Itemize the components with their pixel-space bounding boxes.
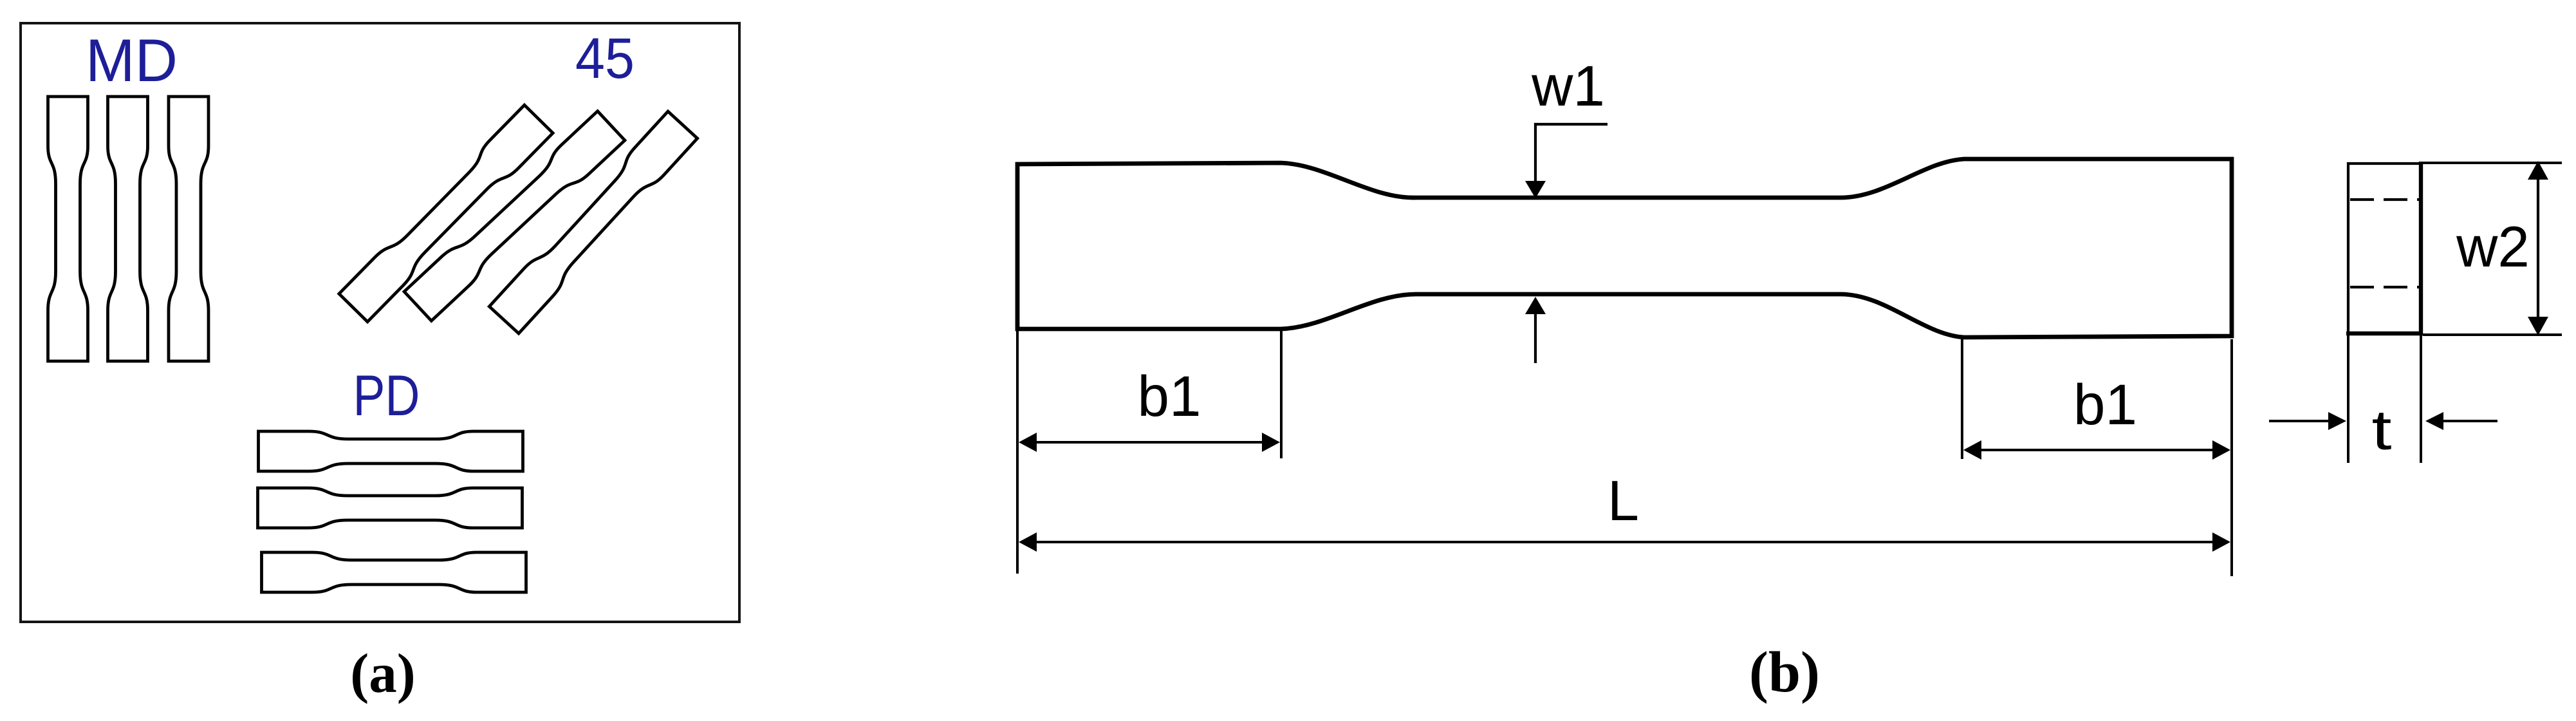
dashed line upper xyxy=(2350,198,2420,201)
svg-text:45: 45 xyxy=(575,26,635,90)
svg-text:t: t xyxy=(2372,399,2392,462)
dimension w1 leader with down arrow xyxy=(1535,124,1608,182)
dimension b1 right arrow line xyxy=(1974,449,2220,451)
svg-text:w1: w1 xyxy=(1531,53,1605,118)
dimension w2 vertical arrow line xyxy=(2537,177,2539,319)
t left arrow xyxy=(2269,420,2331,422)
specimen outline (b) xyxy=(1017,159,2232,337)
specimen MD1 xyxy=(48,97,88,361)
t extension line left xyxy=(2347,335,2349,463)
panel (a) box xyxy=(21,23,739,622)
dimension L arrow line xyxy=(1030,541,2220,543)
specimen 45-3 xyxy=(489,111,697,333)
dimension b1 left arrow line xyxy=(1030,441,1269,444)
side view thick right edge xyxy=(2419,162,2423,335)
specimen MD3 xyxy=(169,97,208,361)
svg-text:PD: PD xyxy=(353,363,420,427)
specimen PD2 xyxy=(258,488,523,528)
svg-text:MD: MD xyxy=(86,26,178,94)
svg-text:L: L xyxy=(1608,469,1639,532)
t right arrow xyxy=(2441,420,2497,422)
b1 right extension line A xyxy=(1961,339,1963,459)
specimen 45-2 xyxy=(404,111,625,321)
svg-text:(a): (a) xyxy=(350,642,415,704)
t extension line right xyxy=(2420,335,2422,463)
specimen PD3 xyxy=(262,552,526,592)
b1 left extension line A xyxy=(1016,331,1019,574)
dimension up arrow to narrow bottom xyxy=(1534,313,1537,363)
b1 left extension line B xyxy=(1280,331,1283,458)
b1 right extension line B xyxy=(2230,339,2233,576)
side view rectangle xyxy=(2348,164,2421,333)
side view thick bottom edge xyxy=(2346,332,2423,335)
svg-text:w2: w2 xyxy=(2456,214,2530,279)
specimen PD1 xyxy=(259,431,523,471)
svg-text:(b): (b) xyxy=(1749,641,1820,704)
specimen MD2 xyxy=(108,97,148,361)
dashed line lower xyxy=(2350,286,2420,288)
svg-text:b1: b1 xyxy=(2073,372,2137,436)
specimen 45-1 xyxy=(339,105,553,322)
svg-text:b1: b1 xyxy=(1138,364,1201,428)
w2 extension line bottom xyxy=(2423,333,2562,336)
w2 extension line top xyxy=(2423,162,2562,164)
